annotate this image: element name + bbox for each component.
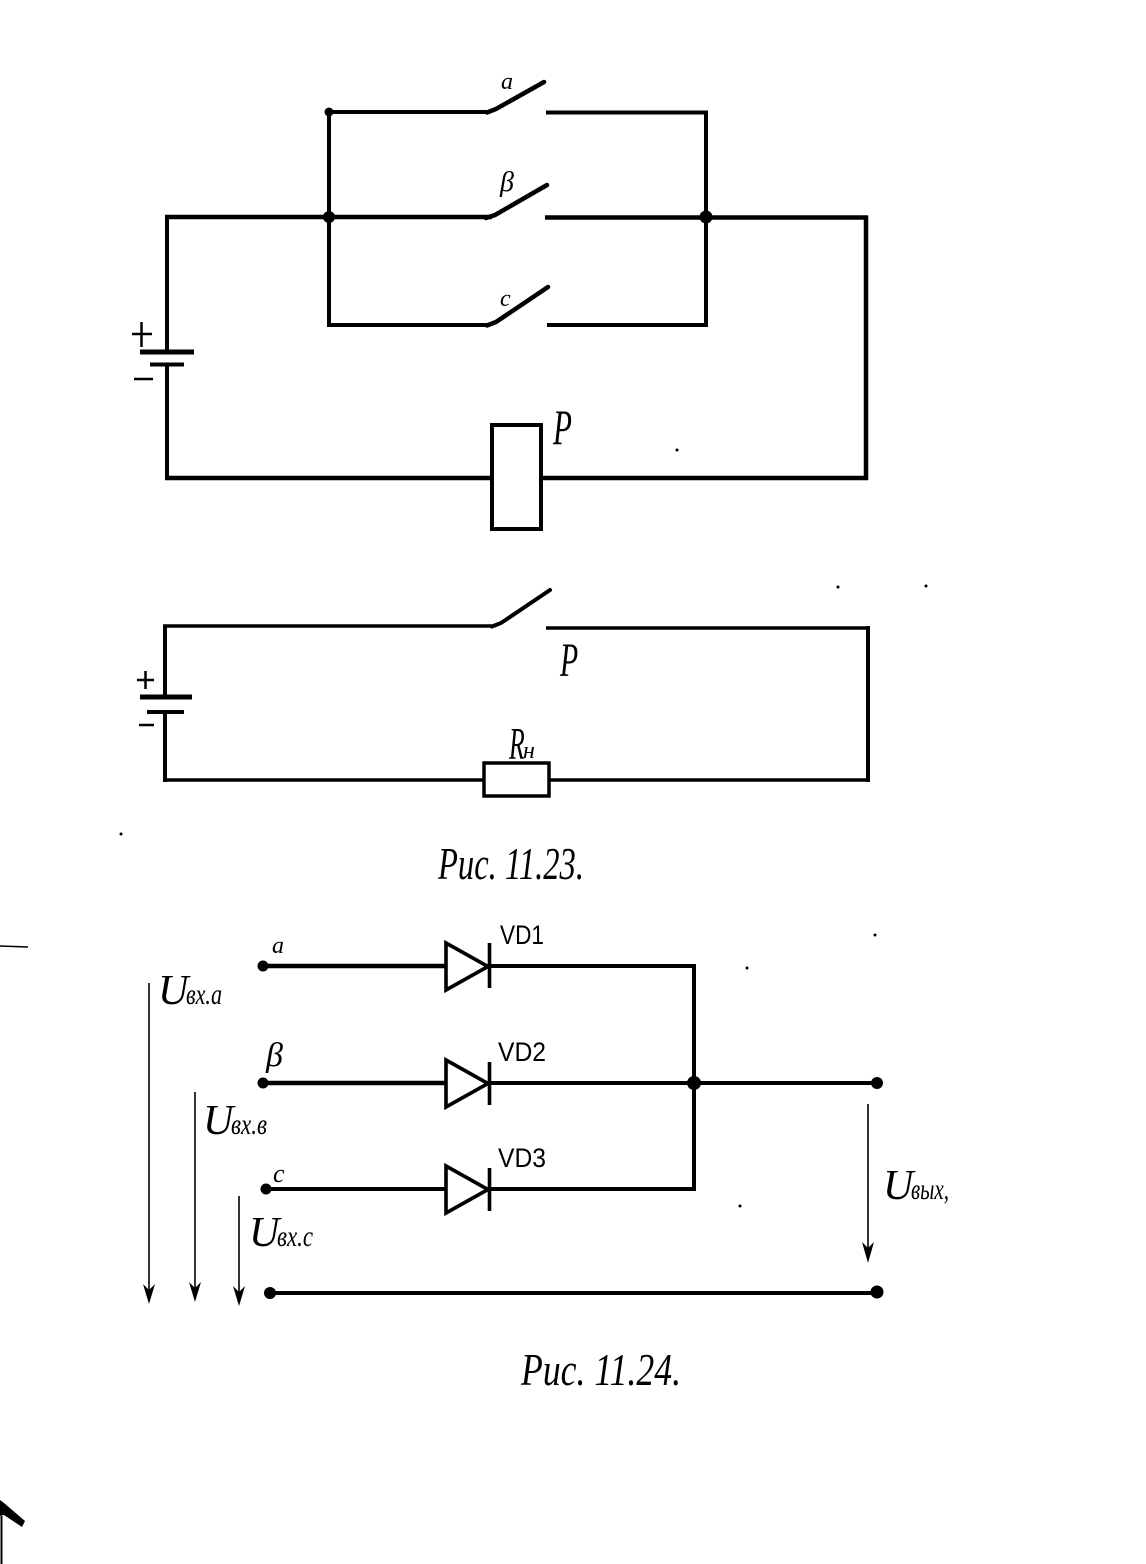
wire: circuit2 top right segment — [546, 626, 870, 630]
battery GB1 minus sign — [134, 378, 153, 381]
wire: circuit1 right inner bus vertical — [704, 111, 708, 328]
node: bottom right dot — [871, 1286, 884, 1299]
resistor Rn rectangle — [484, 763, 549, 796]
wire: diode VD2 to output — [489, 1081, 877, 1085]
arrow Uvx.a — [148, 983, 150, 1300]
wire: circuit2 bottom left segment — [163, 778, 484, 782]
wire: circuit1 right outer vertical — [864, 216, 869, 481]
svg-text:н: н — [523, 738, 535, 764]
diode VD1 — [446, 943, 490, 990]
battery GB1 plus sign — [132, 322, 152, 347]
diode VD3 — [446, 1166, 490, 1213]
svg-text:a: a — [501, 69, 513, 95]
wire: bottom common — [270, 1291, 877, 1295]
switch c: right lead — [547, 323, 708, 327]
svg-text:VD1: VD1 — [500, 920, 544, 950]
label Rn — [508, 720, 525, 771]
wire: circuit1 middle horizontal right of switch b — [545, 215, 868, 220]
wire: circuit2 top left segment — [163, 624, 492, 628]
node: junction dot top-left — [325, 108, 334, 117]
wire: circuit1 left inner bus vertical — [327, 110, 331, 327]
switch c: left lead — [329, 323, 487, 327]
wire: diode VD3 to vertical — [489, 1187, 696, 1191]
svg-text:Р: Р — [552, 400, 572, 455]
node: input a dot — [258, 961, 269, 972]
wire: input b to diode VD2 — [263, 1081, 446, 1086]
svg-text:вх.с: вх.с — [277, 1220, 313, 1253]
node: junction dot on b wire — [687, 1076, 701, 1090]
relay coil P rectangle — [492, 425, 541, 529]
svg-text:вых,: вых, — [911, 1173, 949, 1206]
wire: circuit2 bottom right segment — [549, 778, 870, 782]
svg-text:c: c — [500, 286, 511, 312]
wire: circuit2 right vertical — [866, 626, 870, 782]
switch c: blade — [487, 287, 548, 326]
switch a: blade — [487, 82, 544, 113]
wire: right vertical joining diodes — [692, 964, 696, 1188]
battery GB2 plus sign — [137, 671, 154, 689]
svg-text:c: c — [273, 1159, 285, 1188]
node: output right dot — [871, 1077, 883, 1089]
svg-text:β: β — [499, 167, 514, 198]
wire: input c to diode VD3 — [266, 1187, 446, 1191]
svg-text:Рис. 11.23.: Рис. 11.23. — [437, 838, 584, 889]
node: junction dot mid-left — [323, 211, 335, 223]
switch a: right lead — [546, 111, 708, 115]
node: input c dot — [261, 1184, 272, 1195]
arrow Uvx.c — [238, 1196, 240, 1302]
page artifact: bottom-left corner blob — [0, 1500, 25, 1527]
page artifact: small specks — [120, 449, 928, 1208]
wire: circuit1 bottom left segment — [165, 476, 492, 481]
svg-text:вх.а: вх.а — [186, 978, 222, 1011]
svg-text:VD2: VD2 — [498, 1037, 546, 1067]
svg-text:Р: Р — [559, 633, 578, 687]
node: input b dot — [258, 1078, 269, 1089]
battery GB2 minus sign — [139, 724, 154, 727]
battery GB1 plates — [140, 352, 194, 365]
wire: input a to diode VD1 — [263, 964, 446, 969]
diode VD2 — [446, 1060, 490, 1107]
wire: circuit2 left vertical — [163, 625, 167, 782]
arrow Uvx.b — [194, 1092, 196, 1298]
switch P blade — [492, 590, 550, 627]
switch b: blade — [486, 185, 547, 218]
wire: diode VD1 to right corner — [489, 964, 696, 968]
wire: circuit1 middle horizontal (node to switch b) — [165, 215, 492, 220]
wire: circuit1 left vertical (battery branch) — [165, 215, 169, 480]
wire: circuit1 bottom right segment — [541, 476, 868, 481]
arrow Uvyh — [867, 1104, 869, 1258]
page artifact: left margin dash — [0, 946, 28, 947]
svg-text:a: a — [272, 933, 284, 959]
svg-text:β: β — [265, 1037, 283, 1074]
svg-text:Рис. 11.24.: Рис. 11.24. — [520, 1344, 681, 1395]
node: bottom left dot — [264, 1287, 276, 1299]
node: junction dot mid-right — [700, 211, 713, 224]
svg-text:VD3: VD3 — [498, 1143, 546, 1173]
label P (switch of circuit2) — [559, 633, 578, 687]
label P (relay coil) — [552, 400, 572, 455]
svg-text:вх.в: вх.в — [231, 1108, 267, 1141]
switch a: left lead — [329, 110, 487, 114]
battery GB2 plates — [140, 697, 192, 712]
